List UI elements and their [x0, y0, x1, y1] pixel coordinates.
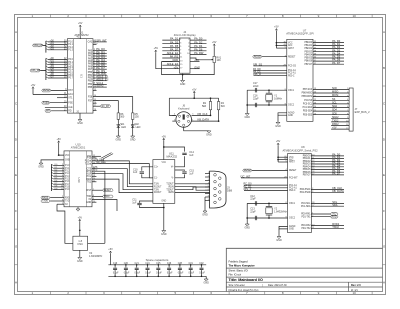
wire KB_DATA [192, 120, 219, 122]
svg-text:Rev: 2.0: Rev: 2.0 [351, 284, 361, 287]
wire J4 left pin 3 PA_D3 [162, 43, 179, 45]
svg-text:T2OUT: T2OUT [166, 189, 174, 191]
wire keyboard +5V rail [169, 97, 218, 99]
capacitor C14 1uF [164, 147, 185, 152]
svg-text:22pF: 22pF [253, 97, 259, 100]
svg-text:P0.7: P0.7 [68, 78, 73, 80]
svg-text:PA6: PA6 [88, 65, 93, 68]
wire pot wiper to J4 [190, 58, 213, 60]
svg-text:RST: RST [68, 90, 73, 92]
node label RESET U8 [243, 169, 252, 172]
svg-text:PB4-D4: PB4-D4 [303, 166, 311, 168]
svg-text:T1OUT: T1OUT [166, 183, 174, 185]
ground LED D1 [117, 130, 119, 136]
wire U10 bottom pins [92, 201, 96, 203]
node label I2C_INT to U1 [93, 105, 100, 107]
node label RESET U7 [253, 55, 262, 58]
wire U1 pin XTAL1 [57, 97, 67, 99]
wire U7 VCC pins [276, 42, 286, 44]
wire U8 PA_D0 left [244, 184, 288, 186]
svg-text:GND: GND [116, 139, 122, 142]
svg-text:PB4-D4: PB4-D4 [304, 55, 312, 57]
svg-text:+D3: +D3 [50, 48, 55, 50]
svg-text:KLR: KLR [87, 173, 92, 175]
svg-text:PA4: PA4 [88, 60, 93, 63]
wire U7 pin PA_D6 right [313, 60, 344, 62]
svg-text:The Micro Komputer: The Micro Komputer [229, 263, 255, 267]
wire U1 pin PA_D0 [93, 50, 107, 52]
svg-text:CPL_D: CPL_D [253, 73, 261, 76]
svg-text:U1: U1 [79, 74, 83, 78]
wire U7 PA_D0 left [254, 69, 287, 71]
wire MAX232 T1OUT to DB9 [175, 183, 210, 185]
svg-text:GND: GND [161, 233, 167, 236]
svg-text:PD0-RX2: PD0-RX2 [301, 225, 311, 227]
svg-text:PB2-D2: PB2-D2 [303, 161, 311, 163]
svg-text:0.1uF: 0.1uF [178, 272, 184, 274]
wire U8 PA_D1 left [244, 187, 288, 189]
svg-text:ARST: ARST [288, 47, 295, 50]
svg-text:PC2-A1: PC2-A1 [288, 72, 296, 75]
svg-text:Sheet: /Basic I/O/: Sheet: /Basic I/O/ [229, 270, 249, 273]
svg-text:AVC: AVC [288, 44, 293, 47]
svg-text:GND: GND [244, 116, 250, 119]
svg-text:SD5: SD5 [332, 112, 337, 115]
svg-text:+5V: +5V [173, 65, 178, 69]
wire U7 SD5 to J7 [313, 114, 349, 116]
wire MAX232 R1IN to DB9 [175, 187, 210, 191]
svg-text:KB_CLK: KB_CLK [198, 112, 208, 116]
svg-text:RESET: RESET [288, 56, 296, 58]
svg-text:PB5: PB5 [88, 87, 93, 89]
wire U10 stub row2 [92, 181, 96, 183]
op-amp U8 ATMEGA162 body [288, 154, 312, 233]
power +5V oscillator X2 [79, 219, 81, 221]
svg-text:PC1-A1: PC1-A1 [289, 184, 297, 187]
svg-text:GND: GND [38, 166, 44, 169]
svg-text:2: 2 [208, 176, 209, 178]
wire X2 left to U10 [57, 204, 73, 243]
wire U8 SDA [311, 205, 344, 207]
svg-text:P1.3: P1.3 [68, 50, 73, 52]
wire U10 stub row [92, 175, 96, 177]
wire U1 pin PA_D5 [93, 63, 107, 65]
svg-text:RESET: RESET [43, 90, 51, 92]
svg-text:PA_RW: PA_RW [194, 51, 204, 55]
svg-text:PD1-TX1: PD1-TX1 [301, 216, 311, 218]
svg-text:PA_D3: PA_D3 [170, 40, 179, 44]
svg-text:T2IN: T2IN [154, 189, 159, 191]
svg-text:+5V: +5V [162, 135, 167, 138]
svg-text:PC2-A1: PC2-A1 [289, 187, 297, 190]
wire J3 pin 1 [205, 173, 210, 175]
svg-text:RXD0: RXD0 [42, 197, 49, 199]
wire U8 pin PA_D7 right [311, 174, 344, 176]
svg-text:+5V: +5V [212, 41, 217, 44]
svg-text:PA_RS: PA_RS [170, 55, 179, 59]
svg-text:CPL_2: CPL_2 [244, 188, 252, 191]
svg-text:PB6-D6: PB6-D6 [303, 172, 311, 174]
svg-text:PD0-PS2C: PD0-PS2C [300, 189, 311, 191]
svg-text:GND: GND [180, 83, 186, 86]
svg-text:+5V: +5V [154, 47, 159, 50]
svg-text:16MHz: 16MHz [274, 97, 283, 100]
svg-text:PA_D2: PA_D2 [194, 40, 203, 44]
svg-text:10K: 10K [216, 59, 221, 62]
connector J4 40x4 LCD Display [180, 38, 191, 73]
wire J3 pin 4 [205, 183, 210, 185]
wire U1 pin P1a stub [93, 44, 97, 46]
wire U7 PA_D1 left [254, 72, 287, 74]
svg-text:560: 560 [120, 116, 125, 119]
svg-text:RXD: RXD [65, 197, 70, 199]
wire bus entries U10 left [50, 164, 52, 191]
svg-text:P1.4: P1.4 [65, 176, 70, 178]
svg-text:Keyboard: Keyboard [178, 106, 190, 110]
svg-text:P_Dat: P_Dat [85, 160, 92, 163]
wire U7 CPL_D left [254, 75, 287, 77]
svg-text:RXD2: RXD2 [332, 123, 339, 126]
svg-text:PA_D7: PA_D7 [332, 172, 341, 176]
wire U8 KB_DATA [311, 191, 344, 193]
svg-text:PA5: PA5 [88, 63, 93, 66]
svg-text:PA2: PA2 [88, 55, 93, 58]
svg-text:P1.8: P1.8 [65, 187, 70, 189]
svg-text:AT89C2051: AT89C2051 [71, 145, 86, 149]
wire spare capacitors top rail [108, 264, 206, 266]
wire KB_CLK [192, 114, 211, 116]
svg-text:3: 3 [208, 179, 209, 181]
svg-text:RD: RD [68, 111, 72, 113]
wire U8 pin PA_D6 right [311, 171, 344, 173]
svg-text:8: 8 [208, 196, 209, 198]
svg-text:0.1uF: 0.1uF [135, 272, 141, 274]
svg-text:ALE: ALE [68, 106, 73, 109]
wire J3 pin 3 [205, 179, 210, 181]
svg-text:VCC: VCC [288, 42, 293, 44]
capacitor C19 0.1uF [114, 265, 116, 268]
svg-text:OSC2: OSC2 [289, 218, 296, 220]
svg-text:GND: GND [289, 229, 294, 231]
wire U7 SCL to J7 [313, 103, 349, 105]
wire U8 VCC pins [278, 156, 288, 158]
svg-text:LED: LED [121, 126, 126, 129]
svg-text:0.1uF: 0.1uF [113, 272, 119, 274]
svg-text:R2OUT: R2OUT [154, 192, 162, 194]
node label RXD0 to U10 [41, 196, 50, 199]
svg-text:RESET: RESET [244, 170, 252, 172]
svg-text:C28: C28 [178, 263, 183, 265]
oscillator X2 1.8432MHz [73, 236, 88, 250]
wire U8 OSC1 [247, 202, 287, 204]
svg-text:PB0: PB0 [88, 72, 93, 74]
svg-text:PA7: PA7 [88, 68, 93, 71]
svg-text:GND: GND [203, 282, 209, 285]
svg-text:V-: V- [172, 177, 174, 179]
svg-text:1: 1 [208, 172, 209, 174]
ground U8 [279, 227, 288, 229]
svg-text:PB1-D1: PB1-D1 [304, 45, 312, 47]
svg-text:+D7: +D7 [50, 77, 55, 79]
svg-text:+5V: +5V [56, 138, 61, 141]
svg-text:RST: RST [87, 190, 92, 192]
svg-text:KiCad E.D.A. kicad (5.1.9)-1: KiCad E.D.A. kicad (5.1.9)-1 [229, 289, 260, 292]
svg-text:C20: C20 [124, 263, 129, 265]
wire U1 pin SPI_INT [93, 41, 107, 43]
wire J3 pin 2 [205, 176, 210, 178]
svg-text:C19: C19 [113, 263, 118, 265]
svg-text:SDA: SDA [332, 203, 338, 207]
wire X2 right [88, 242, 105, 244]
svg-text:OSC1: OSC1 [289, 203, 296, 205]
wire J3 pin 5 [205, 186, 210, 188]
svg-text:H: H [383, 281, 385, 285]
power +5V U7 [275, 29, 277, 31]
svg-text:LED: LED [136, 126, 141, 129]
wire +5V to U1 pin 40 [79, 27, 81, 39]
wire U10 P3.7 [92, 200, 117, 212]
wire U10 to MAX232 row4 [92, 179, 153, 193]
wire U1 pin P32 stub [93, 110, 97, 112]
wire U7 pin PA_D4 right [313, 54, 344, 56]
wire U1 pin PA_D3 [93, 58, 107, 60]
power +5V U8 [277, 143, 279, 145]
connector J3 DB9 [210, 171, 226, 208]
svg-text:P1.1: P1.1 [68, 44, 73, 46]
svg-text:P1.5: P1.5 [65, 179, 70, 181]
resistor R6 560 [117, 113, 119, 120]
svg-text:EXP_BUS_2: EXP_BUS_2 [355, 110, 370, 114]
svg-text:TXD0: TXD0 [104, 196, 110, 198]
node label TXD0 U10 right [103, 195, 114, 198]
svg-text:GND: GND [275, 125, 281, 128]
crystal Y1 16MHz [268, 90, 270, 93]
op-amp U7 ATMEGA162 body [287, 39, 313, 121]
svg-text:EA/V: EA/V [68, 93, 74, 96]
wire J7 pin 9 SDA2 [331, 117, 349, 119]
svg-text:F: F [15, 209, 17, 213]
svg-text:C1-: C1- [154, 177, 158, 179]
wire J4 left pin 1 PA_D1 [162, 39, 179, 41]
svg-text:0.1uF: 0.1uF [189, 272, 195, 274]
svg-text:Id: 1/1: Id: 1/1 [351, 289, 358, 292]
svg-text:ATMEGA162QFP_SPI: ATMEGA162QFP_SPI [286, 32, 314, 36]
wire U8 OSC2 [247, 217, 287, 219]
svg-text:WR: WR [46, 111, 50, 113]
wire U1 pin PA_D2 [93, 55, 107, 57]
wire U7 pin PA_D3 right [313, 51, 344, 53]
wire J4 GND left rail [162, 62, 183, 75]
svg-text:DB9: DB9 [227, 188, 233, 192]
LED D2 [132, 119, 134, 123]
wire U7 pin PA_D1 right [313, 45, 344, 47]
svg-text:PB2-D2: PB2-D2 [304, 48, 312, 50]
svg-text:PA_D7: PA_D7 [332, 61, 341, 65]
svg-text:P0.5: P0.5 [68, 72, 73, 74]
svg-text:OSC1: OSC1 [288, 90, 295, 92]
svg-text:PSE: PSE [68, 102, 73, 104]
power +5V spare capacitors [109, 251, 111, 253]
wire U1 pin P30 stub [93, 102, 97, 104]
svg-text:PE0-C: PE0-C [289, 190, 296, 192]
wire J3 pin 9 [205, 199, 210, 201]
svg-text:B: B [383, 66, 385, 70]
svg-text:CA1: CA1 [88, 41, 93, 44]
svg-text:22pF: 22pF [250, 210, 256, 213]
wire U7 SD4 to J7 [313, 110, 349, 112]
svg-text:+5V: +5V [276, 140, 281, 143]
svg-text:PB2: PB2 [88, 78, 93, 80]
svg-text:0.1uF: 0.1uF [145, 272, 151, 274]
svg-text:SDA: SDA [332, 105, 337, 108]
svg-text:PB1: PB1 [88, 75, 93, 77]
ground U7 crystal [246, 90, 248, 113]
svg-text:PD5-SD4: PD5-SD4 [303, 111, 313, 113]
svg-text:SPI_INT: SPI_INT [96, 39, 107, 43]
node label RXD U8 [311, 216, 330, 218]
svg-text:1uF: 1uF [189, 172, 194, 175]
svg-text:1uF: 1uF [132, 201, 137, 204]
wire MAX232 T2OUT to DB9 [175, 187, 210, 190]
wire U10 pin P1.1 flag [92, 155, 101, 157]
svg-text:SDA2: SDA2 [96, 84, 104, 88]
svg-text:Frédéric Segard: Frédéric Segard [229, 260, 249, 263]
svg-text:PC3-SS: PC3-SS [304, 100, 312, 102]
svg-text:ARST: ARST [289, 161, 296, 164]
wire J4 left pin 11 PA_RS [162, 57, 179, 59]
svg-text:40x4 LCD Display: 40x4 LCD Display [174, 33, 197, 37]
svg-text:PB5-D5: PB5-D5 [304, 58, 312, 60]
svg-text:SDA2: SDA2 [332, 116, 339, 119]
wire U1 pin PA_RS [93, 71, 107, 73]
wire J4 right pin 2 PA_D0 [190, 39, 207, 41]
svg-text:GND: GND [194, 65, 200, 69]
svg-text:P1.9: P1.9 [65, 189, 70, 191]
ground U1 [79, 113, 81, 119]
svg-text:U1: U1 [80, 31, 84, 35]
op-amp U1 AT89S8252 body [67, 39, 93, 113]
capacitor C13 22pF [254, 216, 256, 220]
svg-text:C31: C31 [189, 263, 194, 265]
connector J6 Keyboard DIN [176, 112, 192, 128]
capacitor C22 0.1uF [147, 265, 149, 268]
svg-text:TXD0: TXD0 [42, 201, 49, 203]
ground U7 [278, 113, 287, 115]
wire J4 right pin 12 +5V [190, 61, 200, 63]
svg-text:GND: GND [77, 122, 83, 125]
wire U10 pin P1.0 stub [92, 157, 96, 159]
svg-text:GND: GND [161, 201, 166, 203]
wire J4 bottom to pot [183, 63, 215, 75]
svg-text:PB6-MISO: PB6-MISO [302, 93, 313, 95]
svg-text:R1IN: R1IN [169, 186, 174, 188]
svg-text:10: 10 [353, 14, 357, 18]
wire J4 right pin 14 GND [190, 68, 200, 70]
svg-text:Spare capacitors: Spare capacitors [146, 258, 169, 262]
svg-text:P1.3: P1.3 [65, 173, 70, 175]
power +5V U1 EA pin [32, 87, 34, 89]
svg-text:22pF: 22pF [250, 198, 256, 201]
svg-text:PB6-D6: PB6-D6 [304, 61, 312, 63]
capacitor C26 0.1uF [190, 265, 192, 268]
wire U8 CPL_2 left [244, 190, 288, 192]
power +5V MAX232 [163, 138, 165, 140]
svg-text:PB4: PB4 [88, 84, 93, 86]
wire U7 pin PA_D0 right [313, 41, 344, 43]
svg-text:P1.7: P1.7 [65, 184, 70, 186]
svg-text:Pb_Data: Pb_Data [96, 159, 105, 162]
wire U1 pin PA_D6 [93, 66, 107, 68]
svg-text:0.1uF: 0.1uF [199, 272, 205, 274]
svg-text:+5V: +5V [31, 84, 36, 87]
svg-text:ATMEGA162QFP_Serial_PS2: ATMEGA162QFP_Serial_PS2 [282, 148, 318, 152]
svg-text:P26: P26 [88, 96, 93, 98]
wire U1 pin P36 stub [93, 90, 97, 92]
capacitor C17 22pF [254, 88, 256, 92]
svg-text:PA1: PA1 [88, 52, 93, 55]
wire J4 left pin 5 PA_D5 [162, 46, 179, 48]
svg-text:+5V: +5V [108, 248, 113, 251]
power +5V RV1 [213, 44, 215, 46]
svg-text:PB3-D3: PB3-D3 [303, 164, 311, 166]
wire U10 pin XTAL [57, 203, 64, 205]
svg-text:E: E [15, 173, 17, 177]
svg-text:ADLE_E1: ADLE_E1 [167, 51, 179, 55]
svg-text:Title: Mainboard I/O: Title: Mainboard I/O [229, 278, 263, 282]
wire spare capacitors bottom rail [108, 275, 206, 277]
svg-text:PB0-D0: PB0-D0 [304, 42, 312, 44]
svg-text:RTS: RTS [93, 170, 98, 172]
svg-text:ADLE_E2: ADLE_E2 [167, 62, 179, 66]
power +5V keyboard [193, 91, 195, 93]
wire U1 pin PA_D1 [93, 52, 107, 54]
capacitor C27 0.1uF [201, 265, 203, 268]
svg-text:T1IN: T1IN [154, 183, 159, 185]
svg-text:MOSI: MOSI [332, 94, 339, 97]
svg-text:PA_D4: PA_D4 [194, 44, 203, 48]
svg-text:E: E [383, 173, 385, 177]
svg-text:PA_D1: PA_D1 [170, 37, 179, 41]
svg-text:GND: GND [130, 139, 136, 142]
svg-text:TXD2: TXD2 [332, 225, 339, 229]
wire U8 pin PA_D3 right [311, 163, 344, 165]
node label TXD0 to U10 [41, 200, 50, 203]
svg-text:+5V: +5V [78, 22, 83, 25]
svg-text:+5V: +5V [194, 58, 199, 62]
ground U10 bottom [77, 207, 79, 209]
svg-text:GND: GND [172, 58, 178, 62]
svg-text:VCC: VCC [161, 162, 166, 164]
wire bus entries KBD to U1 [45, 41, 47, 53]
svg-text:+5V: +5V [332, 127, 337, 130]
svg-text:PB3: PB3 [88, 80, 93, 82]
svg-text:PB0-D0: PB0-D0 [303, 156, 311, 158]
wire U1 pin PA_RW [93, 74, 107, 76]
svg-text:PA0: PA0 [88, 49, 93, 52]
svg-text:GND: GND [65, 160, 70, 162]
node label TXD U8 [311, 213, 330, 215]
ground U10 left [41, 160, 64, 163]
wire U10 VCC [63, 154, 65, 156]
svg-text:RESET: RESET [254, 56, 262, 58]
ground LED D2 [132, 130, 134, 136]
wire U1 pin SDA2 [93, 86, 107, 88]
power +5V J4 left [155, 50, 157, 52]
wire J4 left pin 7 PA_D7 [162, 50, 179, 52]
capacitor C11 1uF [140, 201, 153, 203]
svg-text:B: B [15, 66, 17, 70]
wire U10 to MAX232 row2 [92, 169, 153, 187]
